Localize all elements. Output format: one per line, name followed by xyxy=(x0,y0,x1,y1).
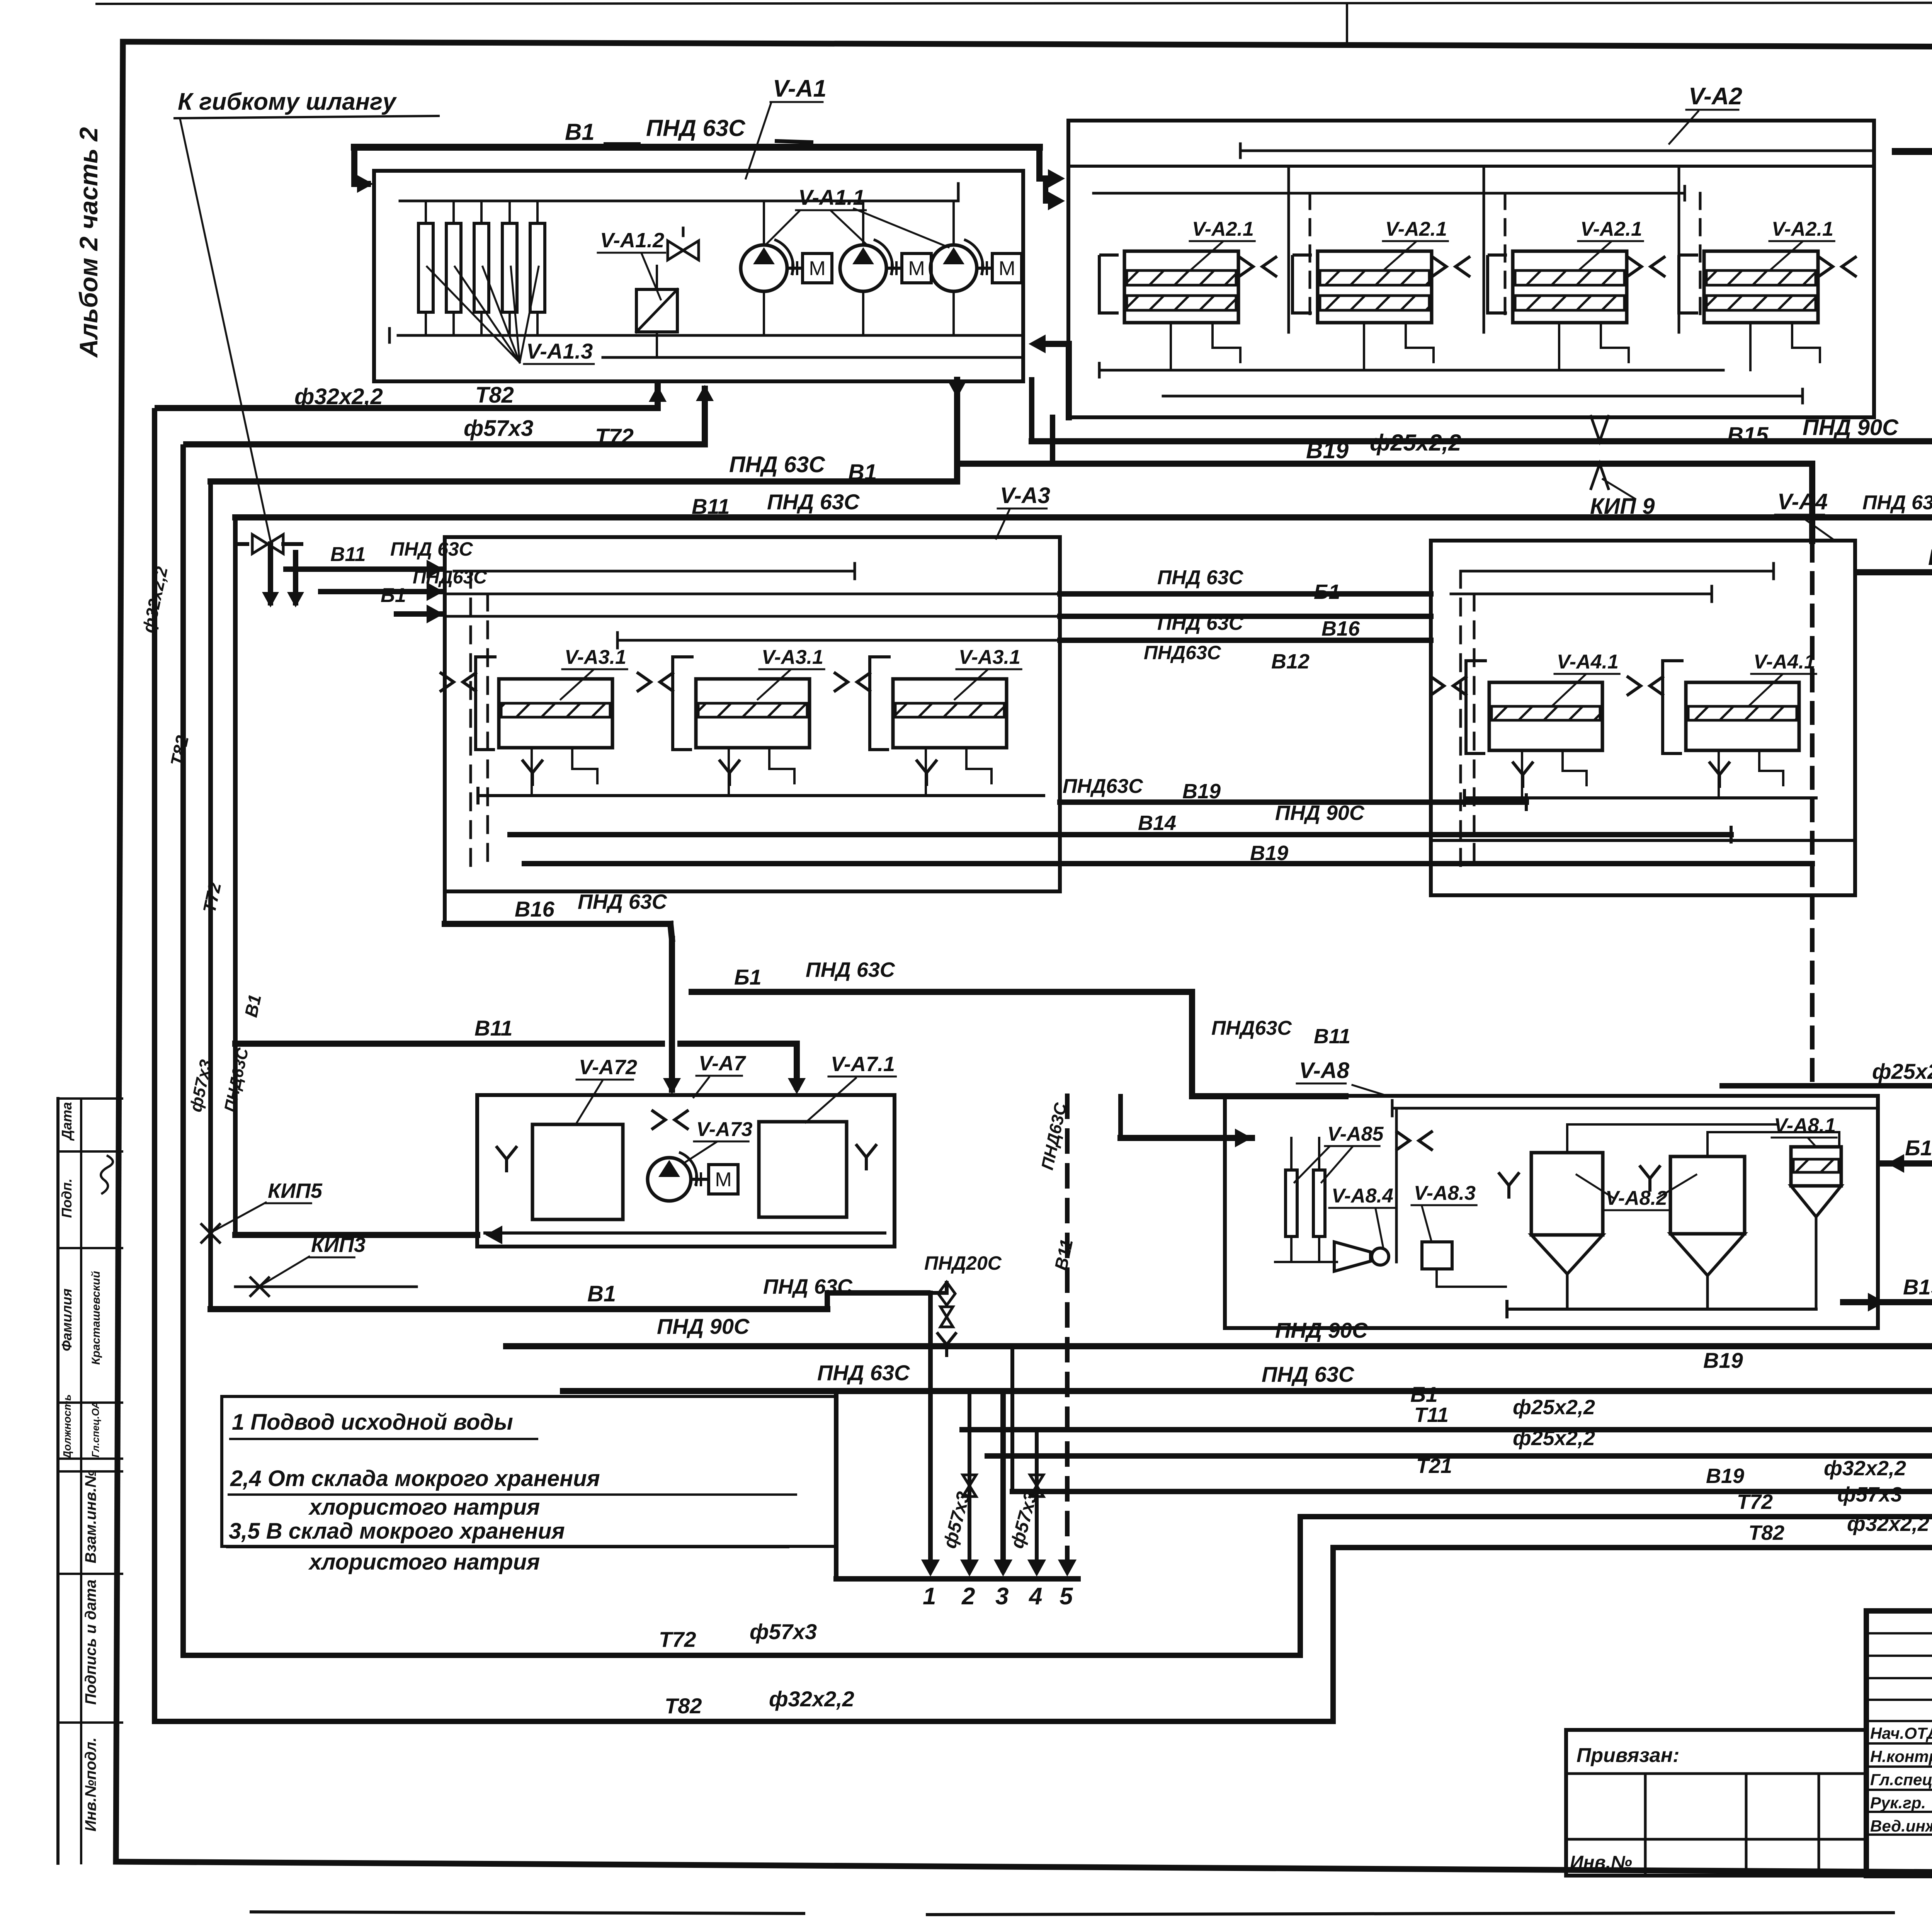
svg-text:Дата: Дата xyxy=(59,1102,75,1141)
valve on B15 xyxy=(1590,415,1609,441)
svg-text:ПНД20С: ПНД20С xyxy=(924,1252,1002,1274)
svg-text:ПНД 63С: ПНД 63С xyxy=(767,490,860,514)
A8 Y symbols xyxy=(1498,1172,1519,1199)
svg-text:ПНД 63С: ПНД 63С xyxy=(729,452,825,477)
pipe T82 below A1 xyxy=(155,383,658,408)
svg-text:V-А2: V-А2 xyxy=(1689,83,1742,110)
svg-text:В1: В1 xyxy=(848,460,877,485)
svg-text:V-А8.1: V-А8.1 xyxy=(1774,1114,1836,1137)
svg-text:V-А7: V-А7 xyxy=(699,1052,747,1075)
svg-text:ПНД 63С: ПНД 63С xyxy=(1157,612,1244,634)
svg-text:ф25х2,2: ф25х2,2 xyxy=(1513,1427,1595,1450)
svg-text:В19: В19 xyxy=(1250,842,1288,865)
top center fold mark xyxy=(1346,4,1348,43)
svg-text:Б1: Б1 xyxy=(1410,1382,1438,1406)
svg-text:V-А4.1: V-А4.1 xyxy=(1753,651,1815,673)
A8 center valve xyxy=(1396,1131,1433,1150)
A7 valve xyxy=(651,1110,689,1129)
svg-text:Гл.спец.: Гл.спец. xyxy=(1870,1770,1932,1789)
KIP3 tap xyxy=(250,1277,270,1297)
A1 right edge feeder xyxy=(1043,341,1069,347)
pipe T21 f25x22 xyxy=(987,1453,1932,1459)
svg-text:Б1: Б1 xyxy=(1314,580,1340,604)
leader line to hose valve xyxy=(180,119,270,541)
title block outer xyxy=(1866,1611,1932,1876)
A4 dashed verticals xyxy=(1459,571,1462,866)
pipe B16 drop to A7 xyxy=(669,939,675,1090)
svg-text:V-А1.2: V-А1.2 xyxy=(600,229,664,252)
pipe B19 f32x22 to box xyxy=(1012,1489,1932,1494)
A8 small box xyxy=(1422,1242,1452,1269)
svg-text:V-А8.4: V-А8.4 xyxy=(1332,1185,1393,1207)
strip signature xyxy=(101,1155,113,1194)
svg-text:2: 2 xyxy=(961,1583,975,1610)
A7 inner bottom line xyxy=(485,1231,885,1235)
pipe B1 jog up xyxy=(827,1293,930,1309)
svg-text:В19: В19 xyxy=(1903,1275,1932,1299)
A1 filter columns V-A1.3 xyxy=(418,223,433,312)
svg-text:Привязан:: Привязан: xyxy=(1577,1744,1679,1767)
svg-text:В1: В1 xyxy=(565,119,595,145)
svg-text:ф57х3: ф57х3 xyxy=(1837,1483,1902,1506)
pipe PND63S B1 long xyxy=(563,1388,1932,1394)
A8 tank 3 small filter xyxy=(1791,1147,1841,1186)
svg-text:ПНД 90С: ПНД 90С xyxy=(657,1314,750,1338)
A7 right tank xyxy=(759,1122,847,1217)
svg-text:В14: В14 xyxy=(1138,811,1176,835)
pipe B16 PND63S xyxy=(443,891,447,924)
A3 bottom manifold xyxy=(478,794,1044,797)
A1 bottom drop to B19 xyxy=(954,380,960,481)
manifold collector line xyxy=(908,1576,1078,1582)
svg-text:V-А2.1: V-А2.1 xyxy=(1772,218,1833,240)
svg-text:Альбом 2 часть 2: Альбом 2 часть 2 xyxy=(74,127,103,358)
pipe PND63S B19 from A3 xyxy=(1060,799,1526,805)
svg-text:V-А4: V-А4 xyxy=(1777,489,1828,514)
svg-text:В12: В12 xyxy=(1271,650,1310,673)
svg-text:В19: В19 xyxy=(1182,780,1221,803)
pipe T11 f25x22 xyxy=(962,1427,1932,1432)
svg-text:M: M xyxy=(908,257,925,280)
riser T82 left loop xyxy=(155,408,1333,1721)
left strip divider xyxy=(80,1099,82,1863)
svg-text:ПНД 63С: ПНД 63С xyxy=(1862,492,1932,514)
svg-text:V-А2.1: V-А2.1 xyxy=(1580,218,1642,240)
svg-text:Б1: Б1 xyxy=(1905,1136,1932,1160)
svg-text:хлористого натрия: хлористого натрия xyxy=(308,1495,540,1520)
manifold arrows xyxy=(921,1560,940,1577)
A1 bottom manifold xyxy=(398,334,1020,337)
A8 dosing bars xyxy=(1286,1170,1297,1236)
svg-text:В11: В11 xyxy=(474,1016,513,1040)
svg-text:V-А2.1: V-А2.1 xyxy=(1192,218,1254,240)
unit V-A7 box xyxy=(477,1095,895,1247)
svg-text:ф32х2,2: ф32х2,2 xyxy=(1847,1512,1929,1536)
pipe B1 a3a4 xyxy=(1060,591,1431,597)
svg-text:ф32х2,2: ф32х2,2 xyxy=(769,1687,854,1711)
svg-text:ПНД 90С: ПНД 90С xyxy=(1803,415,1899,440)
dashed B11 vertical center xyxy=(1065,1096,1070,1570)
privyazan grid xyxy=(1566,1772,1866,1775)
A8 B1 entry right xyxy=(1880,1160,1932,1167)
A1 leader fan to V-A1.3 xyxy=(427,267,520,362)
A1 filter box with diagonal xyxy=(636,289,677,332)
A2 top manifold xyxy=(1240,150,1874,152)
pipe B1 bottom xyxy=(211,1306,827,1312)
svg-text:Т11: Т11 xyxy=(1414,1403,1449,1427)
A8 tank top pipes xyxy=(1567,1124,1777,1153)
svg-text:В11: В11 xyxy=(330,543,366,566)
svg-text:V-А3.1: V-А3.1 xyxy=(762,646,823,668)
unit V-A3 box xyxy=(445,537,1060,891)
svg-text:5: 5 xyxy=(1060,1583,1073,1610)
pipe T72 f57x3 to box xyxy=(1300,1514,1932,1519)
svg-text:Гл.спец.ОА: Гл.спец.ОА xyxy=(90,1401,101,1458)
svg-text:V-А73: V-А73 xyxy=(696,1118,753,1141)
svg-text:ф57х3: ф57х3 xyxy=(464,416,533,441)
svg-text:Б1: Б1 xyxy=(734,965,762,989)
A3 inner manifold 4 xyxy=(617,639,1060,642)
svg-text:В16: В16 xyxy=(1321,617,1360,640)
A7 Y symbols xyxy=(496,1146,517,1172)
svg-text:ПНД63С: ПНД63С xyxy=(1211,1017,1292,1039)
inlet drop arrows xyxy=(268,544,273,603)
svg-text:В16: В16 xyxy=(515,897,555,921)
pipe B1 drop to A2 xyxy=(1039,147,1060,179)
svg-text:В15: В15 xyxy=(1727,423,1769,448)
A3 inner manifold 2 xyxy=(445,593,1060,595)
A4 top inner manifold xyxy=(1461,570,1774,573)
svg-text:V-А1.3: V-А1.3 xyxy=(526,339,593,363)
svg-text:Подп.: Подп. xyxy=(59,1179,75,1218)
pipe B19 drop at right xyxy=(1809,464,1815,541)
svg-text:ф25х2,2: ф25х2,2 xyxy=(1370,430,1461,456)
svg-text:ПНД 63С: ПНД 63С xyxy=(817,1361,910,1385)
svg-text:Красташевский: Красташевский xyxy=(90,1271,102,1365)
svg-text:Инв.№: Инв.№ xyxy=(1570,1852,1632,1873)
A8 inner top manifold xyxy=(1392,1107,1878,1110)
bottom scan streaks xyxy=(251,1912,804,1913)
pipe B12 a3a4 xyxy=(1060,638,1431,643)
svg-text:V-А1.1: V-А1.1 xyxy=(798,185,865,209)
pipe PND90S B19 long xyxy=(506,1343,1932,1349)
svg-text:В19: В19 xyxy=(1706,1464,1744,1488)
riser B11 left xyxy=(233,517,238,1235)
legend right edge riser xyxy=(834,1396,838,1579)
unit V-A8 box xyxy=(1225,1096,1878,1328)
title staff rows xyxy=(1866,1632,1932,1634)
svg-text:ф25х2,2: ф25х2,2 xyxy=(1872,1059,1932,1083)
svg-text:1 Подвод исходной воды: 1 Подвод исходной воды xyxy=(232,1410,513,1435)
svg-text:Вед.инж.: Вед.инж. xyxy=(1870,1817,1932,1835)
A1 valve V-A1.2 bowtie xyxy=(668,241,699,260)
A8 center vertical xyxy=(1395,1108,1398,1262)
A2 top inner line xyxy=(1068,165,1874,168)
unit V-A2 box xyxy=(1068,121,1874,417)
svg-text:В1: В1 xyxy=(587,1281,616,1306)
A2 second manifold xyxy=(1094,192,1685,195)
svg-text:Т72: Т72 xyxy=(595,424,634,449)
svg-text:В19: В19 xyxy=(1306,437,1349,463)
A4 bottom inner line xyxy=(1431,839,1855,842)
left strip cell lines xyxy=(58,1097,122,1100)
pipe B13 from A4 xyxy=(1855,572,1932,593)
svg-text:V-А3: V-А3 xyxy=(1000,483,1050,508)
A7 pump V-A73 xyxy=(648,1158,691,1201)
svg-text:ф32х2,2: ф32х2,2 xyxy=(294,384,383,409)
svg-text:V-А4.1: V-А4.1 xyxy=(1557,651,1619,673)
svg-text:Фамилия: Фамилия xyxy=(59,1289,75,1351)
svg-text:ф57х3: ф57х3 xyxy=(750,1619,817,1644)
svg-text:V-А3.1: V-А3.1 xyxy=(959,646,1020,668)
A3 inner manifold 1 xyxy=(454,570,855,573)
svg-text:Н.контр: Н.контр xyxy=(1870,1747,1932,1765)
svg-text:Т72: Т72 xyxy=(659,1627,696,1651)
svg-text:Инв.№подл.: Инв.№подл. xyxy=(82,1737,99,1832)
svg-text:V-А3.1: V-А3.1 xyxy=(565,646,626,668)
pipe B1 into A3 xyxy=(321,589,440,594)
svg-text:ПНД63С: ПНД63С xyxy=(1144,642,1221,663)
svg-text:Должность: Должность xyxy=(61,1395,73,1459)
svg-text:КИП3: КИП3 xyxy=(311,1233,366,1257)
svg-text:3,5 В склад мокрого хранения: 3,5 В склад мокрого хранения xyxy=(229,1519,565,1544)
pipe B15 PND90S xyxy=(1029,380,1034,441)
svg-text:V-А8: V-А8 xyxy=(1299,1058,1350,1083)
svg-text:В19: В19 xyxy=(1703,1348,1743,1372)
A8 tank 1 xyxy=(1531,1153,1603,1235)
svg-text:В11: В11 xyxy=(1314,1025,1350,1048)
svg-text:Т82: Т82 xyxy=(475,383,514,408)
A8 ejector cone xyxy=(1334,1242,1371,1271)
pipe B11 to A7 xyxy=(235,1041,662,1047)
A3 sub-bottom lines xyxy=(510,833,1060,836)
svg-text:ф25х2,2: ф25х2,2 xyxy=(1513,1396,1595,1419)
A8 bottom manifold xyxy=(1507,1308,1816,1311)
privyazan box xyxy=(1566,1730,1866,1876)
unit V-A4 box xyxy=(1431,541,1855,895)
svg-text:V-А85: V-А85 xyxy=(1327,1123,1384,1145)
pipe B19 f18x2 xyxy=(1719,999,1932,1086)
A7 left tank xyxy=(532,1124,623,1219)
pipe B11 long line xyxy=(235,514,1932,520)
pipe B1 PND63S top xyxy=(354,144,1039,151)
A2 inter-unit verticals xyxy=(1287,166,1290,332)
svg-text:Нач.ОТД: Нач.ОТД xyxy=(1870,1724,1932,1742)
svg-text:V-А72: V-А72 xyxy=(579,1056,637,1079)
hose valve bowtie xyxy=(252,534,283,554)
svg-text:ПНД 63С: ПНД 63С xyxy=(1157,566,1244,589)
A3 left dashed verticals xyxy=(469,571,472,866)
legend box xyxy=(222,1396,836,1546)
A2 bottom manifold 1 xyxy=(1099,369,1723,372)
A8 B19 exit right xyxy=(1843,1299,1932,1305)
pipe PND63S B1 lower xyxy=(211,478,957,485)
svg-text:Рук.гр.: Рук.гр. xyxy=(1870,1794,1926,1812)
A7 drain to left xyxy=(235,1232,477,1238)
pipe T82 f32x22 to box xyxy=(1333,1545,1932,1550)
A8 tank 2 xyxy=(1670,1156,1745,1234)
A3 inner manifold 3 xyxy=(445,615,1060,618)
svg-text:3: 3 xyxy=(995,1583,1009,1610)
pipe B16 a3a4 xyxy=(1060,614,1431,619)
dashed drop from B19 valve line xyxy=(1810,541,1815,1086)
main border frame xyxy=(123,42,1932,49)
pipe B19 f25x2.2 xyxy=(957,461,1812,467)
svg-text:КИП5: КИП5 xyxy=(268,1179,323,1202)
pipe B11 into A3 xyxy=(286,566,440,572)
pipe B19 lower xyxy=(524,861,1812,866)
A4 second manifold xyxy=(1451,593,1712,595)
svg-text:M: M xyxy=(809,257,825,280)
pipe B11 PND63S top right xyxy=(1895,148,1932,155)
riser B19 connect xyxy=(1010,1346,1014,1492)
riser B1 left xyxy=(208,481,213,1309)
pipe T72 below A1 xyxy=(183,386,705,444)
A1 inner top manifold xyxy=(400,200,958,202)
svg-text:4: 4 xyxy=(1028,1583,1042,1610)
svg-text:ПНД 63С: ПНД 63С xyxy=(390,538,473,560)
pipe B14 PND90S xyxy=(510,832,1731,837)
pipe B1 drop right xyxy=(1192,992,1349,1096)
svg-text:ПНД 90С: ПНД 90С xyxy=(1275,801,1365,825)
svg-text:ПНД 63С: ПНД 63С xyxy=(646,115,746,141)
svg-text:Т21: Т21 xyxy=(1416,1454,1452,1478)
svg-text:К гибкому шлангу: К гибкому шлангу xyxy=(178,88,397,115)
svg-text:Т82: Т82 xyxy=(1748,1521,1784,1544)
svg-text:Б1: Б1 xyxy=(381,584,406,607)
svg-text:Подпись и дата: Подпись и дата xyxy=(82,1580,99,1705)
svg-text:хлористого натрия: хлористого натрия xyxy=(308,1549,540,1575)
svg-text:ПНД 63С: ПНД 63С xyxy=(806,958,895,981)
left strip outer line xyxy=(56,1099,60,1863)
manifold risers xyxy=(968,1391,971,1570)
svg-text:V-А1: V-А1 xyxy=(773,75,827,102)
svg-text:ПНД 63С: ПНД 63С xyxy=(578,890,667,913)
svg-text:ПНД63С: ПНД63С xyxy=(1063,775,1143,798)
svg-text:2,4 От склада мокрого хранения: 2,4 От склада мокрого хранения xyxy=(230,1466,600,1491)
svg-text:V-А8.3: V-А8.3 xyxy=(1414,1182,1476,1204)
svg-text:M: M xyxy=(998,257,1015,280)
KIP5 tap xyxy=(201,1223,221,1243)
svg-text:Взам.инв.№: Взам.инв.№ xyxy=(82,1470,99,1563)
A4 bottom manifold xyxy=(1464,796,1816,799)
svg-text:V-А7.1: V-А7.1 xyxy=(831,1053,895,1076)
svg-text:M: M xyxy=(715,1168,731,1191)
svg-text:Т82: Т82 xyxy=(665,1694,702,1718)
unit V-A1 box xyxy=(374,171,1023,381)
svg-text:V-А2.1: V-А2.1 xyxy=(1385,218,1447,240)
A2 bottom manifold 2 xyxy=(1163,395,1803,398)
svg-text:ПНД 90С: ПНД 90С xyxy=(1275,1318,1368,1342)
A1 drain channel line xyxy=(603,356,1020,359)
svg-text:ПНД 63С: ПНД 63С xyxy=(1262,1362,1355,1386)
A2 bottom drop to B19 xyxy=(1050,417,1055,464)
sheet top edge line xyxy=(97,2,1932,4)
A8 feed stub xyxy=(1118,1096,1123,1138)
svg-text:В13: В13 xyxy=(1928,545,1932,570)
svg-text:ф32х2,2: ф32х2,2 xyxy=(1824,1457,1906,1480)
pipe B1 PND63S mid xyxy=(692,989,1192,995)
pipe B1 drop to manifold xyxy=(928,1293,933,1570)
A8 inlet arrow xyxy=(1121,1135,1222,1141)
svg-text:Т72: Т72 xyxy=(1737,1490,1773,1514)
A1 inlet corner from B1 xyxy=(354,147,371,184)
riser T72 left loop xyxy=(183,444,1300,1655)
svg-text:1: 1 xyxy=(923,1583,936,1610)
svg-text:В11: В11 xyxy=(692,494,730,519)
pipe third into A3 xyxy=(396,611,440,617)
